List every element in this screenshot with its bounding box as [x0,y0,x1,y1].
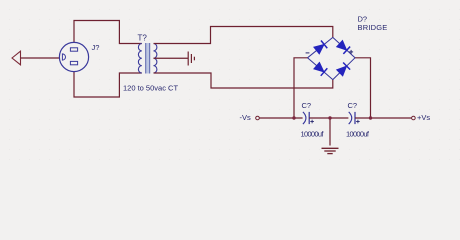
wire: secondary center tap to chassis ground [154,57,189,59]
wire: secondary bottom to bridge bottom vertex [154,73,333,88]
wire: ground junction drop [329,118,331,146]
wire: bridge left vertex to -Vs rail [294,58,308,118]
pin -Vs (open terminal) [256,116,260,120]
transformer T? core [146,43,150,74]
svg-text:C?: C? [348,101,358,110]
svg-text:10000uf: 10000uf [346,130,370,139]
diode D3 (bottom-left, pointing to bottom vertex) [313,62,327,76]
svg-text:J?: J? [92,43,100,52]
label - (bridge negative) [306,52,310,54]
ground (center tap, rotated right) [188,52,194,66]
transformer T? secondary winding [154,44,157,74]
label + (C2 polarity) [356,120,360,124]
wire: secondary top to bridge top vertex [154,27,333,44]
wire: arrow to J? left pin [21,57,63,59]
wire: J? top pin up, right, down to transformer primary top [74,21,142,49]
off-page connector arrow (left) [12,51,21,65]
connector J? (AC plug) [59,42,88,71]
wire: bridge right vertex to +Vs rail [355,58,371,118]
svg-text:+Vs: +Vs [417,113,430,122]
svg-text:C?: C? [302,101,312,110]
transformer T? primary winding [138,44,141,74]
wire: C1 to C2 through ground junction [309,117,348,119]
junction: bridge left to -Vs rail [292,116,295,119]
svg-text:BRIDGE: BRIDGE [358,23,388,32]
capacitor C1 (polarized) [303,112,309,124]
diode D2 (top-right, pointing to right vertex) [336,40,350,54]
pin +Vs (open terminal) [412,116,416,120]
wire: -Vs pin to capacitor C1 [260,117,303,119]
diode D4 (bottom-right, pointing to right vertex) [336,62,350,76]
svg-text:-Vs: -Vs [240,113,252,122]
diode D1 (top-left, pointing to top vertex) [313,40,327,54]
svg-text:T?: T? [138,34,148,43]
wire: C2 to +Vs pin [355,117,411,119]
wire: J? bottom pin down, right, up to transformer primary bottom [74,65,142,98]
svg-text:10000uf: 10000uf [301,130,325,139]
label + (bridge positive) [349,50,353,54]
bridge D? diamond edges [308,37,356,79]
svg-text:120 to 50vac CT: 120 to 50vac CT [123,83,178,92]
ground (output common) [322,148,339,153]
junction: bridge right to +Vs rail [369,116,372,119]
junction: ground tap on rail [328,116,331,119]
label + (C1 polarity) [310,120,314,124]
capacitor C2 (polarized) [349,112,355,124]
